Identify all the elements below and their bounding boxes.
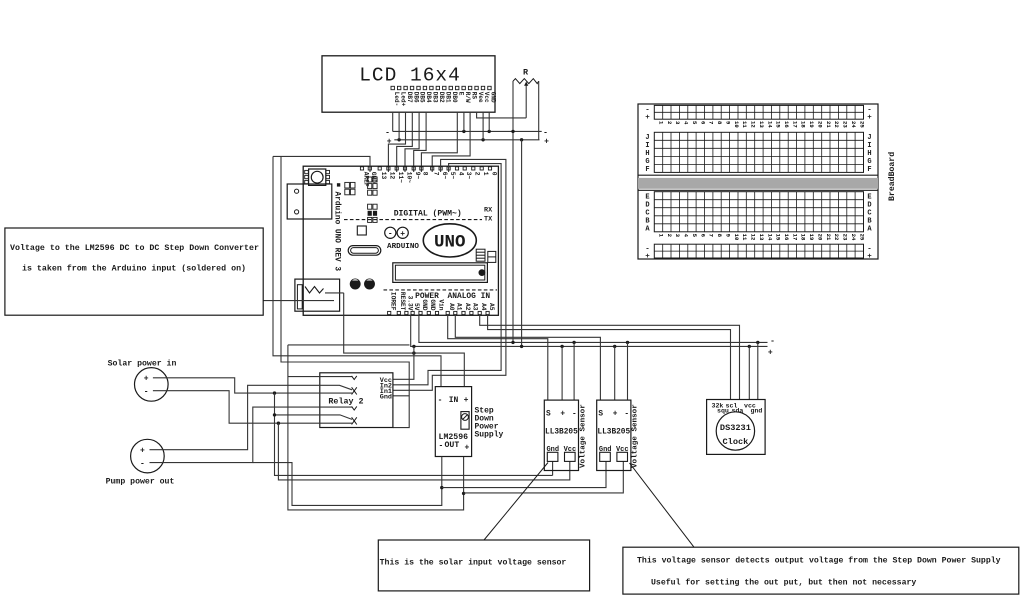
junction OUT+ / sensor2 Vcc line [462,492,465,495]
svg-text:is taken from the Arduino inpu: is taken from the Arduino input (soldere… [22,264,246,274]
note box: output voltage sensor [623,547,1019,594]
svg-text:F: F [645,166,649,174]
svg-text:11: 11 [741,121,748,128]
svg-text:C: C [645,209,649,217]
svg-text:DB7: DB7 [406,92,413,103]
LM2596 step down power supply module [435,387,471,457]
note box: solar input voltage sensor [378,540,589,591]
svg-text:A1: A1 [456,303,463,311]
svg-text:S: S [598,410,603,418]
wire LCD E to Arduino pin 8 [421,112,457,172]
svg-text:21: 21 [825,234,832,241]
svg-text:3.3V: 3.3V [407,296,414,311]
wire solar plus branch to relay SW2 common [275,393,553,475]
wire Arduino pin 5 to relay In2 [393,164,501,385]
svg-text:Solar power in: Solar power in [108,359,177,369]
svg-text:16: 16 [783,121,790,128]
annotation line to sensor2 [630,463,695,547]
svg-text:+: + [544,138,549,147]
wire second left vertical GND to relay Gnd [281,156,409,427]
svg-text:Vin: Vin [437,299,444,310]
svg-text:3~: 3~ [465,172,472,180]
wire solar minus to relay SW2 NC [153,391,352,424]
svg-text:-: - [385,128,390,137]
wire solar minus branch to sensor1 Vcc pad [278,423,569,480]
svg-text:+: + [464,396,469,405]
svg-text:10: 10 [733,121,740,128]
svg-text:A3: A3 [472,303,479,311]
potentiometer R (LCD contrast) [513,68,539,118]
svg-text:+: + [400,230,405,239]
svg-text:DB6: DB6 [412,92,419,103]
svg-text:Led-: Led- [393,92,400,106]
svg-text:Arduino UNO REV 3: Arduino UNO REV 3 [333,192,341,272]
svg-text:7: 7 [433,172,440,176]
svg-text:+: + [645,253,650,261]
svg-text:20: 20 [817,121,824,128]
svg-text:GND: GND [370,172,377,183]
wire LCD R/W to minus rail [463,112,465,131]
svg-text:7: 7 [708,234,715,237]
svg-text:DB1: DB1 [445,92,452,103]
wire OUT- to sensor2 Gnd pad [442,461,606,487]
svg-text:14: 14 [766,121,773,128]
svg-text:H: H [645,150,649,158]
wire OUT+ to sensor2 Vcc pad [464,461,624,493]
wire left vertical GND to LM2596 IN- [273,156,441,386]
BreadBoard [638,104,897,261]
svg-text:J: J [645,134,649,142]
svg-text:Vee: Vee [477,92,484,103]
svg-text:19: 19 [808,121,815,128]
svg-text:A0: A0 [448,303,455,311]
svg-text:This is the solar input voltag: This is the solar input voltage sensor [380,558,567,568]
svg-text:E: E [867,193,871,201]
wire LCD Led- to minus rail [392,112,394,131]
svg-text:-: - [144,388,149,397]
wire LCD Vcc to plus rail [482,112,484,140]
wire Arduino GND to minus rail lower [419,315,768,343]
wire OUT- loop to pump minus [253,457,442,506]
wire sensor1 plus pin to plus rail [561,346,563,400]
svg-text:18: 18 [800,234,807,241]
svg-text:LL3B205: LL3B205 [545,429,578,437]
svg-text:+: + [645,114,650,122]
wire DS3231 vcc to plus rail [748,346,750,399]
wire LCD DB5 to Arduino pin 10 [405,112,419,172]
source: Solar power in [108,359,177,402]
svg-text:E: E [457,92,464,96]
svg-text:17: 17 [791,234,798,241]
wire relay Gnd stub [393,395,409,397]
svg-text:24: 24 [850,234,857,241]
svg-text:This voltage sensor detects ou: This voltage sensor detects output volta… [637,556,1001,566]
junction solar minus branch [277,422,280,425]
svg-text:-: - [543,128,548,137]
svg-text:AREF: AREF [362,172,369,187]
svg-text:+: + [613,410,618,418]
wire Arduino pin 6 to relay In1 [393,159,506,390]
svg-text:0: 0 [490,172,497,176]
voltage sensor 2 LL3B205 [597,400,631,470]
wire pump minus to relay SW2 NO line [150,407,353,463]
junction OUT- / sensor2 Gnd line [440,486,443,489]
svg-text:D: D [645,201,649,209]
svg-text:-: - [438,396,443,405]
svg-text:-: - [140,460,145,469]
svg-text:BreadBoard: BreadBoard [887,152,897,201]
svg-text:23: 23 [842,234,849,241]
wire sensor2 minus pin to minus rail [627,342,629,400]
wire solar plus to relay SW1 NC [153,378,352,393]
svg-text:LL3B205: LL3B205 [597,429,630,437]
svg-text:12: 12 [750,121,757,128]
wire LCD RS to Arduino pin 7 [432,112,470,172]
wire branch H2 from OUT+ riser [288,344,410,346]
svg-text:Relay 2: Relay 2 [328,396,363,406]
svg-text:13: 13 [758,234,765,241]
svg-text:5~: 5~ [449,172,456,180]
wire DS3231 gnd to minus rail [757,342,759,399]
svg-text:-: - [624,410,629,418]
svg-text:DB2: DB2 [438,92,445,103]
svg-text:13: 13 [380,172,387,180]
label step down power supply [475,407,504,440]
wire LCD DB4 to Arduino pin 9 [414,112,426,172]
svg-text:15: 15 [775,234,782,241]
relay SW1 NC arrowhead [352,391,357,395]
svg-text:17: 17 [791,121,798,128]
plus rail upper [394,139,539,141]
breadboard top power rail [654,105,863,119]
wire pot left leg to minus rails (long link) [512,81,514,342]
svg-text:IN: IN [449,396,459,405]
svg-text:R/W: R/W [464,92,471,103]
annotation line to sensor1 [484,463,548,541]
svg-text:GND: GND [429,299,436,310]
svg-text:DS3231: DS3231 [720,423,751,433]
svg-text:IOREF: IOREF [390,292,397,311]
wire relay SW1 NO line [288,376,353,378]
svg-text:9~: 9~ [414,172,421,180]
svg-text:F: F [867,166,871,174]
svg-text:11: 11 [741,234,748,241]
svg-text:R: R [523,68,529,78]
svg-text:-: - [572,410,577,418]
svg-text:2: 2 [474,172,481,176]
svg-text:gnd: gnd [751,408,763,415]
wire note box to power jack [263,300,334,302]
svg-text:Useful for setting the out put: Useful for setting the out put, but then… [651,577,916,587]
svg-text:I: I [645,142,649,150]
svg-text:21: 21 [825,121,832,128]
svg-text:24: 24 [850,121,857,128]
svg-text:+: + [560,410,565,418]
svg-text:16: 16 [783,234,790,241]
relay SW1 NO arrowhead [352,376,357,380]
wire plus link upper to lower rail [521,140,523,347]
wire Arduino 5V to plus rail lower [411,315,768,347]
svg-text:25: 25 [858,234,865,241]
breadboard center channel [638,178,878,189]
wire jack tap to LM2596 IN+ (soldered on) [344,293,465,387]
svg-text:18: 18 [800,121,807,128]
svg-text:Supply: Supply [475,431,504,440]
svg-text:LCD 16x4: LCD 16x4 [359,65,461,87]
wire LCD Led+ to plus rail [398,112,400,140]
svg-text:25: 25 [858,121,865,128]
wire pot right leg to plus rail [538,81,540,140]
svg-text:G: G [867,158,871,166]
svg-text:E: E [645,193,649,201]
svg-text:8: 8 [422,172,429,176]
svg-text:RESET: RESET [399,292,406,311]
minus rail upper [393,130,542,132]
svg-text:22: 22 [833,121,840,128]
svg-text:20: 20 [817,234,824,241]
note box: voltage to LM2596 [5,228,263,315]
svg-text:ANALOG IN: ANALOG IN [447,292,490,301]
breadboard F-J grid [654,132,863,172]
Arduino UNO board U1 [287,166,498,315]
wire Arduino A5 to DS3231 scl [488,315,731,400]
wire Arduino A0 to voltage sensor 1 S [448,315,548,401]
svg-text:C: C [867,209,871,217]
svg-text:6~: 6~ [441,172,448,180]
svg-text:DIGITAL (PWM~): DIGITAL (PWM~) [394,209,462,218]
svg-text:RS: RS [470,92,477,100]
wire plus rail riser to relay Vcc [393,346,414,379]
wire Vee to pot wiper [477,112,527,118]
svg-text:11~: 11~ [397,172,404,183]
breadboard bottom power rail [654,244,863,258]
svg-text:+: + [867,114,872,122]
svg-text:Voltage Sensor: Voltage Sensor [579,404,587,468]
svg-text:10: 10 [733,234,740,241]
junction solar plus branch [273,391,276,394]
wire sensor1 Gnd pad to solar plus line [552,461,554,475]
svg-text:+: + [768,349,773,358]
relay SW2 NC arrowhead [352,421,357,425]
svg-text:I: I [867,142,871,150]
svg-text:19: 19 [808,234,815,241]
junction SW2 common branch [273,413,276,416]
junction 5V riser / IN+ line [412,351,415,354]
svg-text:D: D [867,201,871,209]
svg-text:OUT: OUT [445,441,460,450]
svg-text:H: H [867,150,871,158]
voltage sensor 1 LL3B205 [544,400,578,470]
wire sensor1 minus pin to minus rail [573,342,575,400]
svg-text:22: 22 [833,234,840,241]
svg-text:+: + [140,447,145,456]
wire Arduino GND top from left loop [273,156,370,172]
svg-text:15: 15 [775,121,782,128]
svg-text:G: G [645,158,649,166]
svg-text:S: S [546,410,551,418]
svg-text:Pump power out: Pump power out [106,478,175,487]
wire sensor2 plus pin to plus rail [614,346,616,400]
svg-text:-: - [770,337,775,346]
svg-text:GND: GND [490,92,497,103]
svg-text:5V: 5V [413,303,420,311]
svg-text:Gnd: Gnd [380,394,392,402]
svg-text:DB0: DB0 [451,92,458,103]
svg-text:Vcc: Vcc [483,92,490,103]
svg-text:10~: 10~ [405,172,412,183]
svg-text:RX: RX [484,207,493,215]
svg-text:+: + [465,444,470,453]
svg-text:-: - [388,230,393,239]
svg-text:7: 7 [708,121,715,124]
svg-text:Clock: Clock [723,437,749,447]
wire SW2 common branch [275,415,353,420]
wire LCD GND to minus rail [488,112,490,131]
svg-text:ARDUINO: ARDUINO [387,243,419,251]
svg-text:Led+: Led+ [399,92,406,107]
svg-text:+: + [387,137,392,146]
svg-text:DB3: DB3 [432,92,439,103]
svg-text:23: 23 [842,121,849,128]
svg-text:DB5: DB5 [419,92,426,103]
LCD 16x4 module U2 [322,56,497,112]
svg-text:J: J [867,134,871,142]
svg-text:A2: A2 [464,303,471,311]
source: Pump power out [106,439,175,486]
svg-text:14: 14 [766,234,773,241]
svg-text:1: 1 [482,172,489,176]
svg-text:A5: A5 [488,303,495,311]
svg-text:12: 12 [389,172,396,180]
svg-text:sda: sda [732,408,744,415]
svg-text:UNO: UNO [434,233,466,253]
svg-text:A4: A4 [480,303,487,311]
svg-text:12: 12 [750,234,757,241]
svg-text:-: - [439,442,444,451]
svg-text:4: 4 [457,172,464,176]
wire pump plus to relay SW1 common [150,385,353,449]
svg-text:GND: GND [421,299,428,310]
relay SW2 NO arrowhead [352,406,357,410]
wire LCD DB7 to Arduino pin 12 [388,112,405,172]
svg-text:Voltage to the LM2596 DC to DC: Voltage to the LM2596 DC to DC Step Down… [10,243,259,253]
wire Arduino A4 to DS3231 sda [480,315,740,400]
svg-text:+: + [144,375,149,384]
svg-text:13: 13 [758,121,765,128]
wire OUT+ riser to relay SW1 NO contact [288,345,464,510]
svg-text:Voltage Sensor: Voltage Sensor [632,404,640,468]
relay module Relay 2 [320,373,393,428]
svg-text:TX: TX [484,216,493,224]
breadboard A-E grid [654,192,863,232]
DS3231 clock module [707,400,766,455]
wire LCD DB6 to Arduino pin 11 [397,112,413,172]
svg-text:+: + [867,253,872,261]
svg-text:DB4: DB4 [425,92,432,103]
wire Arduino A1 to voltage sensor 2 S [455,315,600,401]
